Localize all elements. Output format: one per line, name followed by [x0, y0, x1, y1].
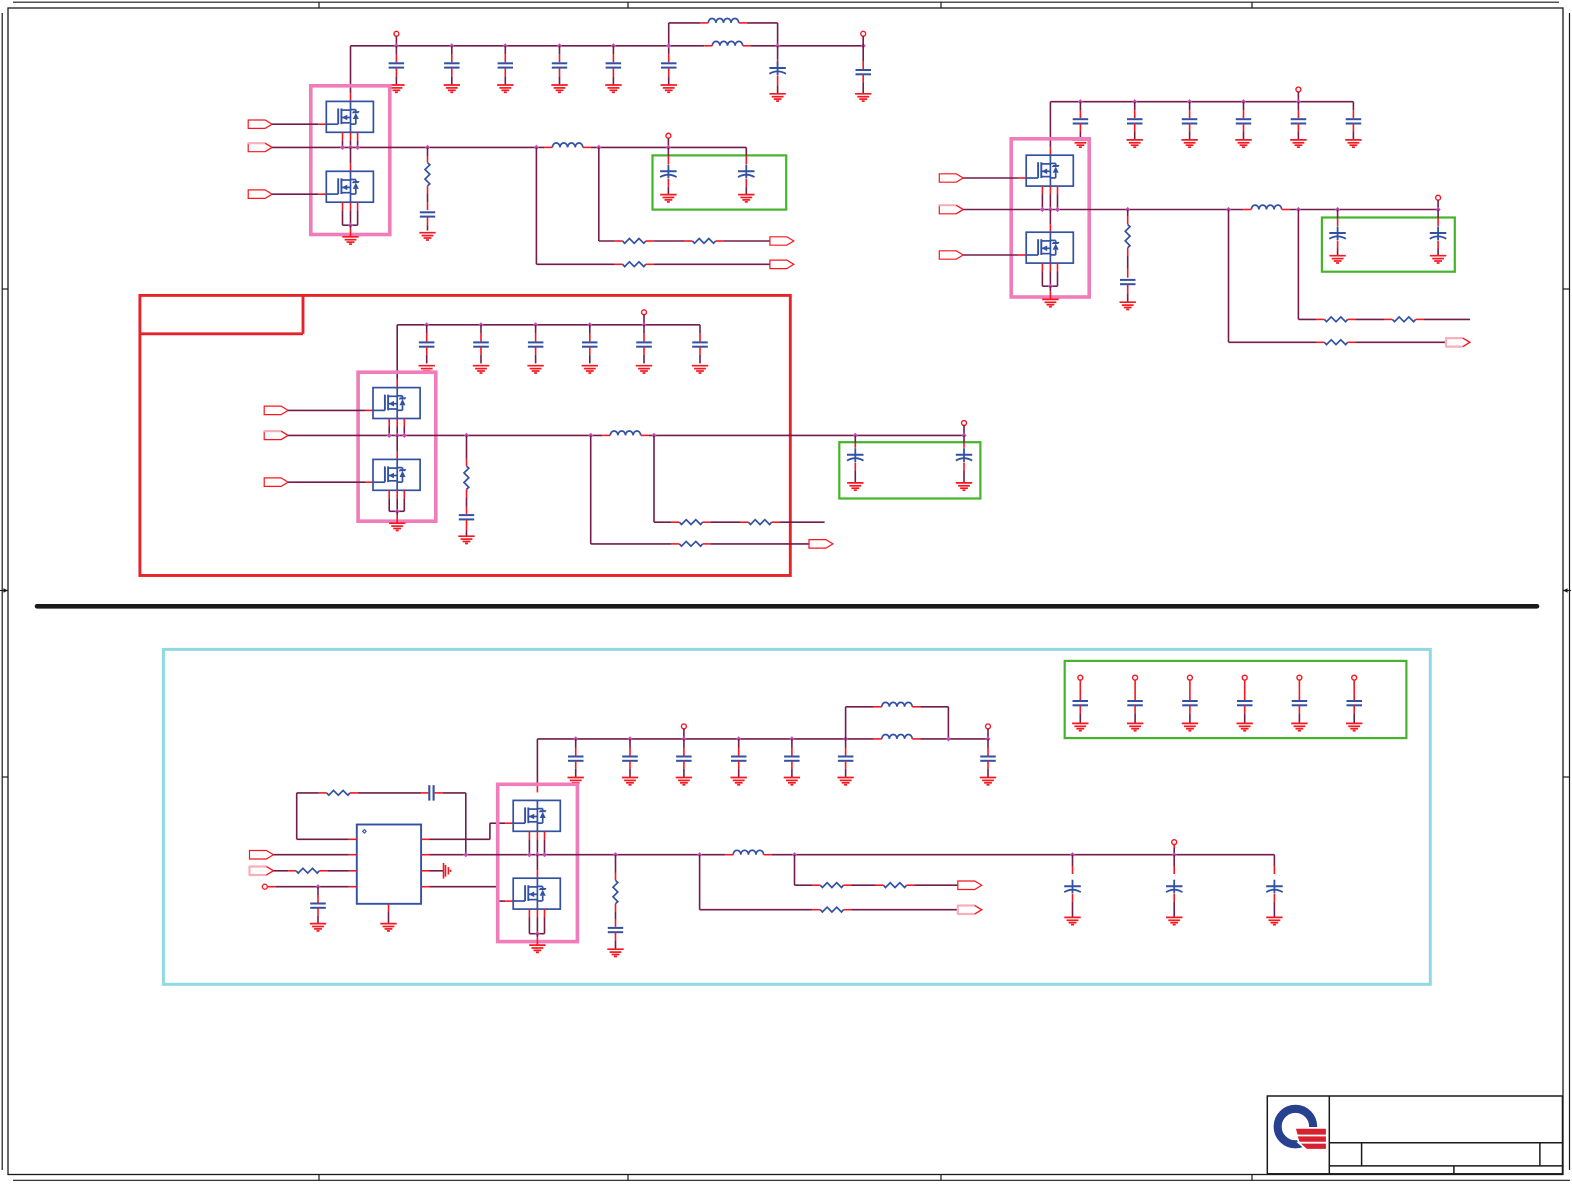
port VOUT4 sense: [958, 881, 982, 890]
resistor R3c feedback: [671, 541, 710, 546]
capacitor C4x3 bypass: [1182, 701, 1198, 723]
resistor R4b feedback: [875, 883, 914, 888]
capacitor C1b input: [444, 43, 460, 84]
port IN4 VIN: [249, 866, 273, 876]
border zone ticks right: [1563, 289, 1570, 777]
port IN1 SW: [248, 143, 272, 152]
wire feedback1 c2: [1298, 210, 1316, 320]
capacitor C4o2 output: [1166, 852, 1183, 917]
ground C3d: [582, 366, 598, 373]
capacitor C2c input: [1182, 99, 1198, 140]
pins Q3b source bracket: [389, 490, 404, 523]
wire drain Q2b: [1049, 210, 1051, 233]
power flag VCC1 right: [861, 31, 866, 45]
resistor R4a feedback: [812, 883, 851, 888]
capacitor C1a input: [389, 43, 405, 84]
module box U3 (pink): [358, 372, 436, 521]
ground C4m: [310, 924, 326, 931]
capacitor C4o1 output: [1064, 852, 1081, 917]
capacitor C4f input: [838, 736, 854, 777]
wire gate Q1a: [272, 123, 326, 125]
wire drain drop Q1: [350, 46, 352, 102]
wire SW node c2: [963, 209, 1438, 211]
wire drain Q3b: [396, 435, 398, 459]
ground C1e: [605, 85, 621, 92]
capacitor C3o1 output: [847, 433, 864, 483]
ground C2d: [1235, 140, 1251, 147]
wire ferrite upper branch c1: [669, 23, 778, 46]
junction c1 sw-fb2: [534, 145, 539, 150]
ground C3f: [692, 366, 708, 373]
capacitor C3c input: [528, 322, 544, 363]
power flag VCC2: [1296, 87, 1301, 102]
capacitor C1e input: [606, 43, 622, 84]
capacitor C1d input: [552, 43, 567, 84]
ground Q3b source: [389, 523, 405, 530]
capacitor C2e input: [1291, 99, 1307, 140]
border zone ticks top: [319, 2, 1252, 8]
wire fb1 mid c4: [852, 884, 876, 886]
transistor Q3a: [373, 388, 420, 419]
junction c4 fb1: [792, 852, 797, 857]
wire compensation loop c4: [297, 793, 349, 839]
border zone ticks left: [2, 289, 8, 777]
capacitor C4comp series: [421, 785, 442, 800]
power flag VOUT1: [666, 133, 671, 147]
wire gate Q3b: [288, 481, 373, 483]
ground C1c: [497, 85, 513, 92]
module box U2 (pink): [1011, 139, 1089, 297]
ground C2c: [1181, 140, 1197, 147]
capacitor C4x4 bypass: [1237, 701, 1253, 723]
wire fb1 tail c3: [780, 521, 825, 523]
inductor L1 output: [544, 143, 590, 147]
resistor R2b feedback: [1384, 317, 1423, 322]
inductor L2 output: [1243, 205, 1289, 209]
capacitor C1o2 output: [738, 147, 755, 194]
ground C2f: [1345, 140, 1361, 147]
wire fb1 mid c2: [1356, 318, 1385, 320]
ground C4s: [607, 949, 623, 956]
junction c1 vout-fb1: [596, 145, 601, 150]
output filter box (green) c1: [653, 155, 787, 209]
highlight box (red) circuit3: [140, 295, 790, 575]
ground C4g: [980, 778, 996, 785]
ground C4x5: [1291, 723, 1307, 730]
capacitor C3a input: [419, 322, 435, 363]
wire U4 ground: [388, 911, 390, 923]
wire gate Q1b: [272, 193, 326, 195]
ground C3c: [527, 366, 543, 373]
ground C3o2: [956, 483, 972, 490]
pins U4 right: [421, 839, 429, 886]
ground C2o1: [1329, 256, 1345, 263]
wire SW node c4: [429, 854, 1274, 856]
wire fb1 to port c4: [915, 884, 958, 886]
ground C4b: [622, 778, 638, 785]
ground C1f: [661, 85, 677, 92]
ground C2s: [1120, 302, 1136, 309]
wire comp to SW c4: [443, 793, 466, 855]
wire gate drive low c4: [429, 887, 513, 901]
capacitor C3f input: [692, 325, 708, 364]
wire gate Q3a: [288, 409, 373, 411]
power flag bypass 5: [1297, 675, 1302, 700]
transistor Q4a: [513, 800, 560, 831]
module box U5 (pink): [498, 784, 578, 941]
transistor Q1a: [326, 101, 373, 132]
junction c1 rail split: [666, 43, 671, 48]
pins U4 left: [349, 839, 357, 886]
resistor R4comp: [319, 790, 358, 795]
regulator IC U4: [357, 825, 421, 904]
ground C4c: [676, 778, 692, 785]
terminal mode pin: [262, 884, 267, 889]
bypass box (green) c4: [1065, 661, 1407, 738]
ground C3o1: [847, 483, 863, 490]
capacitor C3o2 output: [956, 433, 972, 483]
pin U4 bottom: [388, 904, 390, 912]
transistor Q2a: [1026, 155, 1073, 186]
wire SW node c1: [272, 146, 746, 148]
ground C2a: [1072, 140, 1088, 147]
power flag VOUT4: [1172, 840, 1177, 855]
wire feedback1 c3: [654, 435, 671, 522]
transistor Q1b: [326, 171, 373, 202]
capacitor C4x5 bypass: [1292, 701, 1308, 723]
ground C2o2: [1430, 256, 1446, 263]
power flag VCC3: [642, 310, 647, 325]
wire fb1 mid c1: [654, 240, 685, 242]
capacitor C3d input: [582, 322, 598, 363]
wire fb2 to port c4: [852, 909, 958, 911]
wire feedback1 c4: [795, 855, 813, 886]
wire drain drop Q2: [1049, 102, 1051, 156]
output filter box (green) c2: [1322, 218, 1455, 272]
title block frame: [1267, 1096, 1562, 1174]
border center arrow left: [0, 588, 8, 592]
pins Q2b source bracket: [1042, 263, 1057, 299]
capacitor C1g bulk: [769, 46, 786, 94]
ground C4o1: [1064, 917, 1080, 924]
inductor L4a: [874, 702, 920, 706]
pins Q1a source: [340, 132, 360, 150]
ground C2e: [1290, 140, 1306, 147]
wire feedback2 c4: [700, 855, 813, 910]
border center arrow right: [1563, 588, 1571, 592]
title block row line 1: [1329, 1142, 1562, 1144]
resistor R1s snubber: [425, 145, 430, 202]
wire drain drop Q4: [536, 739, 538, 793]
resistor R4c feedback: [812, 907, 851, 912]
wire SW node c3: [288, 434, 964, 436]
port SW1 sense: [770, 260, 794, 269]
section divider bar: [37, 604, 1537, 609]
power flag bypass 6: [1352, 675, 1357, 700]
wire fb2 to port c3: [711, 543, 809, 545]
junction c2 vout-fb1: [1296, 207, 1301, 212]
wire comp mid c4: [358, 792, 421, 794]
ground Q2b source: [1042, 299, 1058, 306]
transistor Q2b: [1026, 232, 1073, 263]
port VOUT1 sense: [770, 237, 794, 245]
capacitor C4o3 output: [1266, 855, 1283, 917]
wire feedback2 c1: [536, 147, 614, 264]
ground C4a: [568, 778, 584, 785]
capacitor C3e input: [636, 322, 652, 363]
inductor L3 output: [602, 431, 648, 435]
ground C1o2: [738, 195, 754, 202]
ground U4: [380, 924, 396, 931]
resistor R1b feedback: [684, 239, 723, 244]
capacitor C4m: [310, 884, 326, 923]
wire VIN rail circuit2: [1050, 101, 1353, 103]
ground C4x6: [1346, 723, 1362, 730]
resistor R1c feedback: [615, 262, 654, 267]
resistor R4in: [288, 868, 327, 873]
ground C1d: [551, 85, 567, 92]
capacitor C4x1 bypass: [1073, 701, 1089, 723]
port SW4 sense: [957, 905, 981, 915]
junction c4 sw-fb2: [697, 852, 702, 857]
wire feedback2 c3: [591, 435, 672, 544]
power flag VCC4a: [681, 724, 686, 739]
capacitor C1h: [856, 43, 872, 93]
resistor R3s snubber: [464, 433, 469, 507]
wire drain Q1b: [350, 147, 352, 171]
wire ferrite upper branch c4: [846, 707, 949, 739]
junction c4 rail rejoin: [946, 736, 951, 741]
capacitor C4a input: [568, 736, 584, 777]
ground C4x1: [1072, 723, 1088, 730]
pins Q2a source: [1040, 186, 1060, 212]
capacitor C4c input: [676, 736, 692, 777]
junction c2 sw-fb2: [1226, 207, 1231, 212]
capacitor C2d input: [1236, 99, 1251, 140]
capacitor C2s snubber: [1120, 269, 1136, 302]
capacitor C4e input: [784, 736, 800, 777]
resistor R2s snubber: [1125, 207, 1130, 269]
capacitor C4x2 bypass: [1127, 701, 1143, 723]
wire fb1 to port c1: [724, 240, 770, 242]
port IN3 HG: [264, 406, 288, 415]
ground C4e: [784, 778, 800, 785]
inductor L4 output: [725, 850, 771, 854]
capacitor C2a input: [1073, 99, 1089, 140]
ground Q4b source: [529, 945, 545, 952]
wire feedback2 c2: [1229, 210, 1317, 343]
ground C1o1: [660, 195, 676, 202]
wire feedback1 c1: [599, 147, 615, 241]
capacitor C4g: [980, 736, 996, 777]
power flag bypass 3: [1187, 675, 1192, 700]
power flag bypass 2: [1133, 675, 1138, 700]
power flag VCC4b: [986, 724, 991, 739]
ground C3s: [458, 536, 474, 543]
ground C1a: [388, 85, 404, 92]
inductor L4b: [874, 734, 920, 738]
pins Q1b source bracket: [343, 202, 358, 236]
transistor Q4b: [513, 878, 560, 909]
capacitor C1s snubber: [420, 202, 435, 230]
power flag VCC1: [394, 31, 399, 45]
wire fb1 mid c3: [711, 521, 741, 523]
resistor R4s snubber: [613, 852, 618, 919]
title block cell divider a: [1361, 1143, 1363, 1166]
resistor R3b feedback: [740, 520, 779, 525]
border zone ticks bottom: [319, 1175, 1252, 1181]
ground C4f: [837, 778, 853, 785]
power flag VOUT3: [962, 421, 967, 436]
ground C1g: [769, 94, 785, 101]
title block logo cell divider: [1328, 1096, 1330, 1174]
power flag bypass 4: [1242, 675, 1247, 700]
port IN1 HG: [248, 120, 272, 128]
output filter box (green) c3: [839, 442, 980, 498]
capacitor C4b input: [622, 736, 638, 777]
capacitor C2o1 output: [1329, 207, 1346, 256]
port IN4 EN: [250, 851, 274, 860]
capacitor C2b input: [1127, 99, 1143, 140]
capacitor C4d input: [731, 736, 747, 777]
junction c1 rail rejoin: [775, 43, 780, 48]
ground C4d: [731, 778, 747, 785]
title block row line 2: [1329, 1165, 1562, 1167]
wire R4in to U4: [327, 870, 349, 872]
wire drain drop Q3: [396, 325, 398, 388]
ground C1b: [444, 85, 460, 92]
highlight box (cyan) circuit4: [163, 649, 1430, 984]
port IN3 LG: [264, 478, 288, 487]
capacitor C1o1 output: [660, 145, 677, 195]
power flag bypass 1: [1078, 675, 1083, 700]
title block cell divider c: [1453, 1166, 1455, 1174]
resistor R2c feedback: [1316, 340, 1355, 345]
resistor R2a feedback: [1316, 317, 1355, 322]
wire mode c4: [267, 886, 349, 888]
port IN2 LG: [939, 251, 963, 259]
port IN2 SW: [939, 205, 963, 214]
wire VIN rail circuit1: [351, 45, 864, 47]
ground C4o2: [1166, 917, 1182, 924]
signal ground U4 pin3: [429, 863, 450, 879]
wire drain Q4b: [536, 855, 538, 879]
pins Q3a source: [387, 419, 407, 439]
wire gate drive high c4: [429, 823, 513, 839]
ground Q1b source: [342, 237, 358, 244]
capacitor C2o2 output: [1430, 210, 1447, 256]
wire fb2 to port c1: [654, 263, 770, 265]
resistor R3a feedback: [671, 520, 710, 525]
junction c3 sw-fb2: [588, 433, 593, 438]
wire fb1 tail c2: [1424, 318, 1470, 320]
ground C4x2: [1127, 723, 1143, 730]
inductor L1b: [704, 41, 750, 45]
title block cell divider b: [1539, 1143, 1541, 1166]
capacitor C4s snubber: [608, 919, 623, 949]
port IN2 HG: [939, 174, 963, 182]
wire enable c4: [273, 854, 348, 856]
wire input R c4: [273, 870, 288, 872]
ground C1s: [419, 233, 435, 240]
wire VIN rail circuit3: [397, 324, 700, 326]
capacitor C1c input: [498, 43, 513, 84]
company logo: [1278, 1109, 1326, 1149]
ground C4x4: [1237, 723, 1253, 730]
junction c4 comp: [463, 852, 468, 857]
transistor Q3b: [373, 459, 420, 490]
pins Q4b source bracket: [529, 909, 544, 945]
wire gate Q2b: [963, 254, 1026, 256]
wire VIN rail circuit4: [537, 738, 988, 740]
ground C3a: [419, 366, 435, 373]
ground C1h: [855, 94, 871, 101]
port IN3 SW: [264, 431, 288, 440]
inductor L1a: [700, 18, 746, 22]
capacitor C2f input: [1346, 102, 1362, 140]
capacitor C4x6 bypass: [1347, 701, 1363, 723]
capacitor C3b input: [473, 322, 489, 363]
capacitor C3s snubber: [459, 507, 474, 536]
resistor R1a feedback: [615, 239, 654, 244]
ground C4x3: [1182, 723, 1198, 730]
pins Q4a source: [527, 831, 547, 857]
module box U1 (pink): [311, 86, 390, 235]
power flag VOUT2: [1436, 195, 1441, 212]
ground C3b: [473, 366, 489, 373]
ground C2b: [1127, 140, 1143, 147]
port SW3 sense: [809, 540, 833, 549]
wire gate Q2a: [963, 177, 1026, 179]
wire fb2 to port c2: [1356, 341, 1446, 343]
capacitor C1f input: [661, 43, 677, 84]
ground C3e: [636, 366, 652, 373]
port SW2 sense: [1446, 338, 1470, 348]
junction c3 vout-fb1: [651, 433, 656, 438]
ground C4o3: [1266, 917, 1282, 924]
port IN1 LG: [248, 190, 272, 199]
